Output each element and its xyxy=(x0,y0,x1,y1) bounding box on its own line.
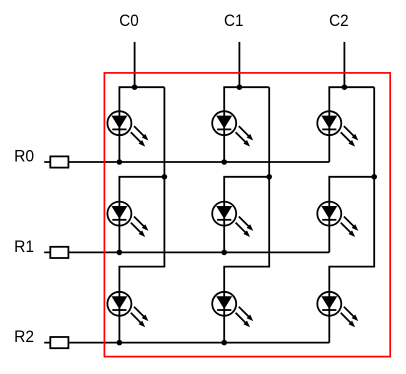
junction LED D11 cathode on row R0 xyxy=(117,159,123,165)
LED D23 xyxy=(317,202,358,237)
wire C1 column bus: right vertical and jog to row-3 LED xyxy=(224,87,269,342)
wire column C2 lead-in xyxy=(343,42,345,87)
svg-text:R1: R1 xyxy=(14,237,34,256)
LED D21 xyxy=(107,202,148,237)
LED D11 xyxy=(107,111,148,146)
junction LED D21 cathode on row R1 xyxy=(117,250,123,256)
wire column C1 lead-in xyxy=(238,42,240,87)
LED D13 xyxy=(317,111,358,146)
LED D33 xyxy=(317,292,358,327)
LED D12 xyxy=(212,111,253,146)
wire C2 column bus: right vertical and jog to row-3 LED xyxy=(329,87,374,342)
wire C0 column bus: right vertical and jog to row-3 LED xyxy=(119,87,164,342)
svg-text:R0: R0 xyxy=(14,147,34,166)
LED D32 xyxy=(212,292,253,327)
junction C1 tap for cell-2 xyxy=(266,174,272,180)
junction C0 tap for cell-2 xyxy=(162,174,168,180)
matrix boundary box (red) xyxy=(104,73,390,357)
wire row R2 xyxy=(44,342,329,344)
junction LED D12 cathode on row R0 xyxy=(221,159,227,165)
svg-text:C2: C2 xyxy=(329,11,349,30)
wire C0 cell-2 top edge + LED anode drop xyxy=(119,177,164,253)
LED D31 xyxy=(107,292,148,327)
wire C1 cell-2 top edge + LED anode drop xyxy=(224,177,269,253)
wire C0 cell-1 top edge + LED anode drop xyxy=(119,87,164,162)
wire row R0 xyxy=(44,161,329,163)
junction C0 feed on cell-1 top edge xyxy=(132,84,138,90)
junction LED D32 cathode on row R2 xyxy=(221,340,227,346)
junction C2 tap for cell-2 xyxy=(371,174,377,180)
junction LED D22 cathode on row R1 xyxy=(221,250,227,256)
terminal R1 xyxy=(50,247,68,258)
wire column C0 lead-in xyxy=(134,42,136,87)
svg-text:C1: C1 xyxy=(224,11,244,30)
wire C2 cell-2 top edge + LED anode drop xyxy=(329,177,374,253)
wire C1 cell-1 top edge + LED anode drop xyxy=(224,87,269,162)
terminal R2 xyxy=(50,337,68,348)
junction LED D31 cathode on row R2 xyxy=(117,340,123,346)
LED D22 xyxy=(212,202,253,237)
svg-text:R2: R2 xyxy=(14,327,34,346)
wire C2 cell-1 top edge + LED anode drop xyxy=(329,87,374,162)
svg-text:C0: C0 xyxy=(119,11,139,30)
wire row R1 xyxy=(44,251,329,253)
junction C2 feed on cell-1 top edge xyxy=(342,84,348,90)
terminal R0 xyxy=(50,156,68,167)
junction C1 feed on cell-1 top edge xyxy=(237,84,243,90)
